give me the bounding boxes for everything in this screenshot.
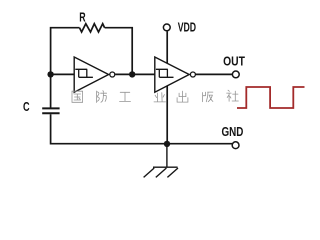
wire resistor right to rail [105, 28, 133, 75]
wire U1 output to U2 input [115, 73, 154, 75]
wire input tap to inverter U1 [51, 73, 74, 75]
wire U2 ground pin down [166, 86, 168, 144]
op-amp U1 schmitt inverter triangle [74, 57, 108, 92]
U2 hysteresis symbol [156, 69, 174, 77]
OUT terminal circle [232, 71, 239, 78]
ground symbol [144, 144, 178, 178]
node B junction dot (feedback meets signal) [129, 71, 135, 77]
capacitor C bottom plate [42, 112, 59, 114]
svg-text:VDD: VDD [178, 20, 196, 34]
svg-text:R: R [79, 9, 86, 24]
node A junction dot at input [47, 71, 53, 77]
capacitor C top plate [42, 107, 59, 109]
output waveform (red square wave) [237, 87, 305, 108]
svg-text:C: C [23, 99, 30, 114]
svg-text:OUT: OUT [223, 54, 245, 69]
wire U2 output to OUT terminal [196, 73, 232, 75]
svg-text:GND: GND [222, 124, 244, 139]
node C junction dot at ground rail [164, 141, 170, 147]
wire top-left loop (feedback) [51, 28, 80, 108]
U1 hysteresis symbol [75, 69, 93, 77]
op-amp U2 schmitt inverter triangle [155, 57, 189, 92]
wire VDD pin to U2 [166, 31, 168, 63]
wire capacitor bottom to ground rail [51, 114, 232, 143]
resistor R [80, 24, 105, 32]
VDD power terminal circle [163, 24, 170, 31]
GND terminal circle [232, 142, 239, 149]
U2 output bubble [190, 72, 195, 77]
U1 output bubble [110, 72, 115, 77]
watermark 国防工业出版社 [72, 90, 238, 102]
